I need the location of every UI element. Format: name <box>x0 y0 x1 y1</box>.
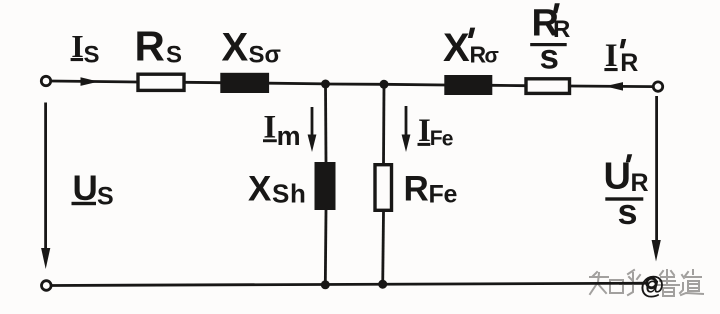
wire: R_S to X_So <box>186 81 222 84</box>
label I'_R <box>604 38 638 77</box>
label U_S <box>72 169 114 211</box>
wire: R'_R/s to right terminal <box>571 85 654 88</box>
label R_S <box>135 22 183 69</box>
label X_So <box>222 25 281 69</box>
wire: node B down to R_Fe <box>382 84 385 164</box>
resistor R'_R/s <box>526 79 570 94</box>
label R_Fe <box>404 170 458 209</box>
svg-text:e: e <box>442 127 454 150</box>
svg-text:S: S <box>84 41 100 68</box>
svg-text:S: S <box>166 41 182 68</box>
svg-text:s: s <box>540 38 559 77</box>
svg-text:s: s <box>618 191 638 232</box>
svg-text:X: X <box>443 26 470 70</box>
label X_Sh <box>248 169 306 208</box>
watermark 知乎 @善道 <box>590 270 703 296</box>
reactance X_Sh (magnetizing) <box>315 162 336 210</box>
svg-text:e: e <box>444 180 458 208</box>
label I_Fe <box>418 113 454 150</box>
svg-text:S: S <box>97 183 114 211</box>
node D (bottom rail junction) <box>378 280 387 289</box>
wire: node B to X'_Ro <box>384 83 445 86</box>
terminal: rotor top right <box>653 82 662 91</box>
wire: node A to node B <box>326 83 385 86</box>
reactance X'_Ro (rotor leakage) <box>444 75 492 95</box>
svg-text:X: X <box>222 25 249 69</box>
resistor R_S <box>138 74 184 90</box>
svg-text:@: @ <box>640 272 664 300</box>
svg-text:R: R <box>135 22 165 69</box>
node B (iron-loss junction top) <box>380 80 389 89</box>
wire: X_Sh down to node C <box>324 210 328 285</box>
svg-text:m: m <box>277 121 301 151</box>
current arrow I_m <box>308 107 317 152</box>
wire: R_Fe down to node D <box>381 212 385 285</box>
svg-text:S: S <box>272 178 289 208</box>
svg-text:S: S <box>249 42 265 69</box>
乎 <box>620 270 643 295</box>
wire: bottom rail <box>51 283 646 285</box>
知 <box>590 272 608 294</box>
svg-text:F: F <box>429 180 444 208</box>
node C (bottom rail junction) <box>321 280 330 289</box>
current arrow I_Fe <box>402 106 411 152</box>
node A (magnetizing junction top) <box>321 80 330 89</box>
label I_S <box>71 28 100 69</box>
reactance X_So (stator leakage) <box>220 73 269 93</box>
terminal: stator top left <box>41 76 50 85</box>
current arrow I_S <box>81 77 99 86</box>
善 <box>657 270 679 296</box>
wire: X_So to node A <box>269 82 326 86</box>
current arrow I'_R <box>605 82 623 91</box>
svg-text:σ: σ <box>265 42 281 69</box>
道 <box>680 270 703 295</box>
svg-text:R: R <box>620 49 638 77</box>
wire: X'_Ro to R'_R/s <box>492 84 526 87</box>
svg-text:R: R <box>404 170 429 209</box>
voltage arrow U'_R/s <box>652 96 661 262</box>
wire: node A down to X_Sh <box>324 84 327 163</box>
svg-text:σ: σ <box>485 45 499 68</box>
terminal: rotor bottom right <box>647 278 657 288</box>
wire: top rail left <box>51 81 138 82</box>
label U'_R over s <box>604 154 649 232</box>
label R'_R over s <box>530 3 570 77</box>
label I_m <box>263 109 301 151</box>
svg-text:X: X <box>248 169 272 208</box>
svg-text:h: h <box>290 178 306 208</box>
terminal: stator bottom left <box>42 281 52 291</box>
voltage arrow U_S <box>41 103 50 270</box>
label X'_Ro <box>443 26 499 70</box>
resistor R_Fe (iron loss) <box>375 165 392 211</box>
